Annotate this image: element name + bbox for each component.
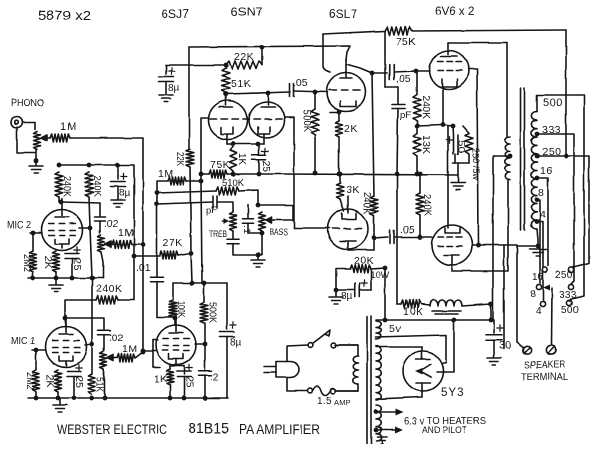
svg-text:2K: 2K — [42, 256, 53, 269]
svg-text:500: 500 — [543, 97, 563, 109]
svg-text:2M2: 2M2 — [21, 254, 32, 272]
svg-text:PA AMPLIFIER: PA AMPLIFIER — [239, 422, 320, 437]
svg-text:TERMINAL: TERMINAL — [521, 372, 568, 383]
svg-text:10K: 10K — [403, 306, 423, 318]
svg-text:1M: 1M — [60, 121, 77, 133]
svg-text:250: 250 — [542, 146, 561, 158]
svg-text:240K: 240K — [420, 95, 431, 119]
svg-text:pF: pF — [400, 110, 411, 121]
svg-text:30: 30 — [499, 340, 511, 352]
svg-text:16: 16 — [540, 165, 553, 177]
svg-text:250 /5w: 250 /5w — [470, 148, 481, 180]
svg-text:.02: .02 — [104, 219, 118, 230]
svg-text:4: 4 — [540, 209, 546, 221]
svg-text:13K: 13K — [420, 135, 431, 154]
svg-text:51K: 51K — [231, 78, 251, 90]
svg-text:TREB: TREB — [209, 229, 227, 239]
svg-text:75K: 75K — [210, 159, 230, 171]
svg-text:.05: .05 — [400, 224, 415, 236]
svg-text:.2: .2 — [210, 372, 219, 383]
svg-text:MIC 1: MIC 1 — [11, 336, 35, 347]
svg-text:MIC 2: MIC 2 — [7, 220, 31, 231]
svg-text:81B15: 81B15 — [188, 420, 229, 437]
svg-text:22K: 22K — [234, 51, 254, 63]
svg-text:75K: 75K — [396, 36, 416, 48]
svg-text:333: 333 — [542, 124, 561, 136]
svg-text:2M2: 2M2 — [24, 372, 35, 390]
svg-text:240K: 240K — [91, 176, 102, 197]
svg-text:500K: 500K — [301, 110, 312, 132]
svg-text:pF: pF — [206, 205, 217, 216]
svg-text:6SN7: 6SN7 — [231, 5, 263, 19]
svg-text:20K: 20K — [354, 255, 374, 267]
svg-text:.01: .01 — [136, 262, 151, 274]
svg-text:.05: .05 — [293, 77, 308, 89]
svg-text:1M: 1M — [118, 227, 134, 239]
svg-text:PHONO: PHONO — [11, 97, 44, 109]
svg-text:8µ: 8µ — [119, 188, 131, 199]
svg-text:1M: 1M — [122, 343, 138, 355]
svg-text:2K: 2K — [344, 123, 358, 135]
svg-text:16: 16 — [532, 272, 544, 283]
svg-text:8µ: 8µ — [168, 83, 180, 94]
svg-text:8: 8 — [530, 289, 536, 300]
svg-text:10W: 10W — [370, 270, 390, 280]
svg-text:BASS: BASS — [270, 227, 288, 237]
svg-text:27K: 27K — [163, 237, 183, 249]
svg-text:2K: 2K — [44, 374, 55, 387]
svg-text:,05: ,05 — [396, 73, 411, 85]
svg-text:8: 8 — [538, 187, 544, 199]
svg-text:1.5: 1.5 — [317, 396, 332, 407]
svg-text:1K: 1K — [154, 374, 167, 385]
svg-text:4: 4 — [536, 306, 542, 317]
svg-text:3K: 3K — [346, 184, 360, 196]
svg-text:6SL7: 6SL7 — [329, 7, 357, 21]
svg-text:240K: 240K — [61, 176, 72, 197]
svg-text:333: 333 — [559, 290, 577, 301]
svg-text:240K: 240K — [361, 192, 372, 214]
svg-text:500: 500 — [561, 305, 579, 316]
svg-text:5Y3: 5Y3 — [441, 387, 464, 399]
svg-text:1M: 1M — [158, 168, 174, 180]
svg-text:22K: 22K — [174, 152, 185, 166]
svg-text:100K: 100K — [175, 301, 186, 318]
svg-text:AND PILOT: AND PILOT — [422, 425, 467, 436]
svg-text:SPEAKER: SPEAKER — [524, 360, 565, 371]
svg-text:500K: 500K — [207, 302, 218, 323]
svg-text:6V6 x 2: 6V6 x 2 — [435, 4, 475, 18]
svg-text:6SJ7: 6SJ7 — [161, 7, 189, 21]
svg-text:240K: 240K — [96, 283, 123, 295]
svg-text:1K: 1K — [236, 153, 247, 165]
svg-text:240K: 240K — [421, 194, 432, 216]
svg-text:8µ: 8µ — [230, 337, 242, 348]
svg-text:51K: 51K — [94, 377, 105, 392]
svg-text:5879 x2: 5879 x2 — [38, 8, 91, 23]
svg-text:250: 250 — [555, 270, 573, 281]
svg-text:5v: 5v — [389, 323, 401, 335]
svg-text:WEBSTER ELECTRIC: WEBSTER ELECTRIC — [57, 421, 167, 437]
svg-text:AMP: AMP — [334, 398, 351, 407]
svg-text:25: 25 — [260, 160, 271, 172]
